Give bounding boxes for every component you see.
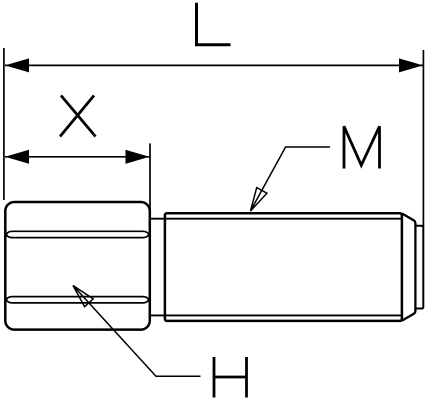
dimension line X: [5, 156, 150, 158]
label X (hex length): [60, 96, 96, 137]
arrowhead X right: [126, 150, 150, 164]
extension line left (shared by L and X): [3, 48, 5, 200]
hex lower flat boundary (lens): [6, 297, 149, 303]
label H (hex size): [214, 357, 247, 398]
extension line right of L: [422, 50, 424, 227]
label M (thread): [344, 126, 380, 168]
thread minor line top: [151, 218, 402, 220]
threaded body: [165, 213, 402, 321]
extension line right of X: [149, 143, 151, 212]
end pilot tip: [415, 226, 423, 309]
dimension line L: [5, 64, 423, 66]
arrowhead L right: [399, 58, 423, 72]
hex head outline: [5, 202, 150, 330]
thread minor line bottom: [151, 314, 402, 316]
end chamfer: [402, 214, 415, 321]
leader arrowhead H (open): [73, 286, 93, 307]
label L (overall length): [195, 3, 231, 45]
arrowhead X left: [5, 150, 29, 164]
leader arrowhead M (open): [251, 188, 267, 211]
leader line H: [73, 286, 201, 377]
leader line M: [251, 147, 331, 211]
hex upper flat boundary (lens): [6, 231, 149, 237]
arrowhead L left: [5, 58, 29, 72]
